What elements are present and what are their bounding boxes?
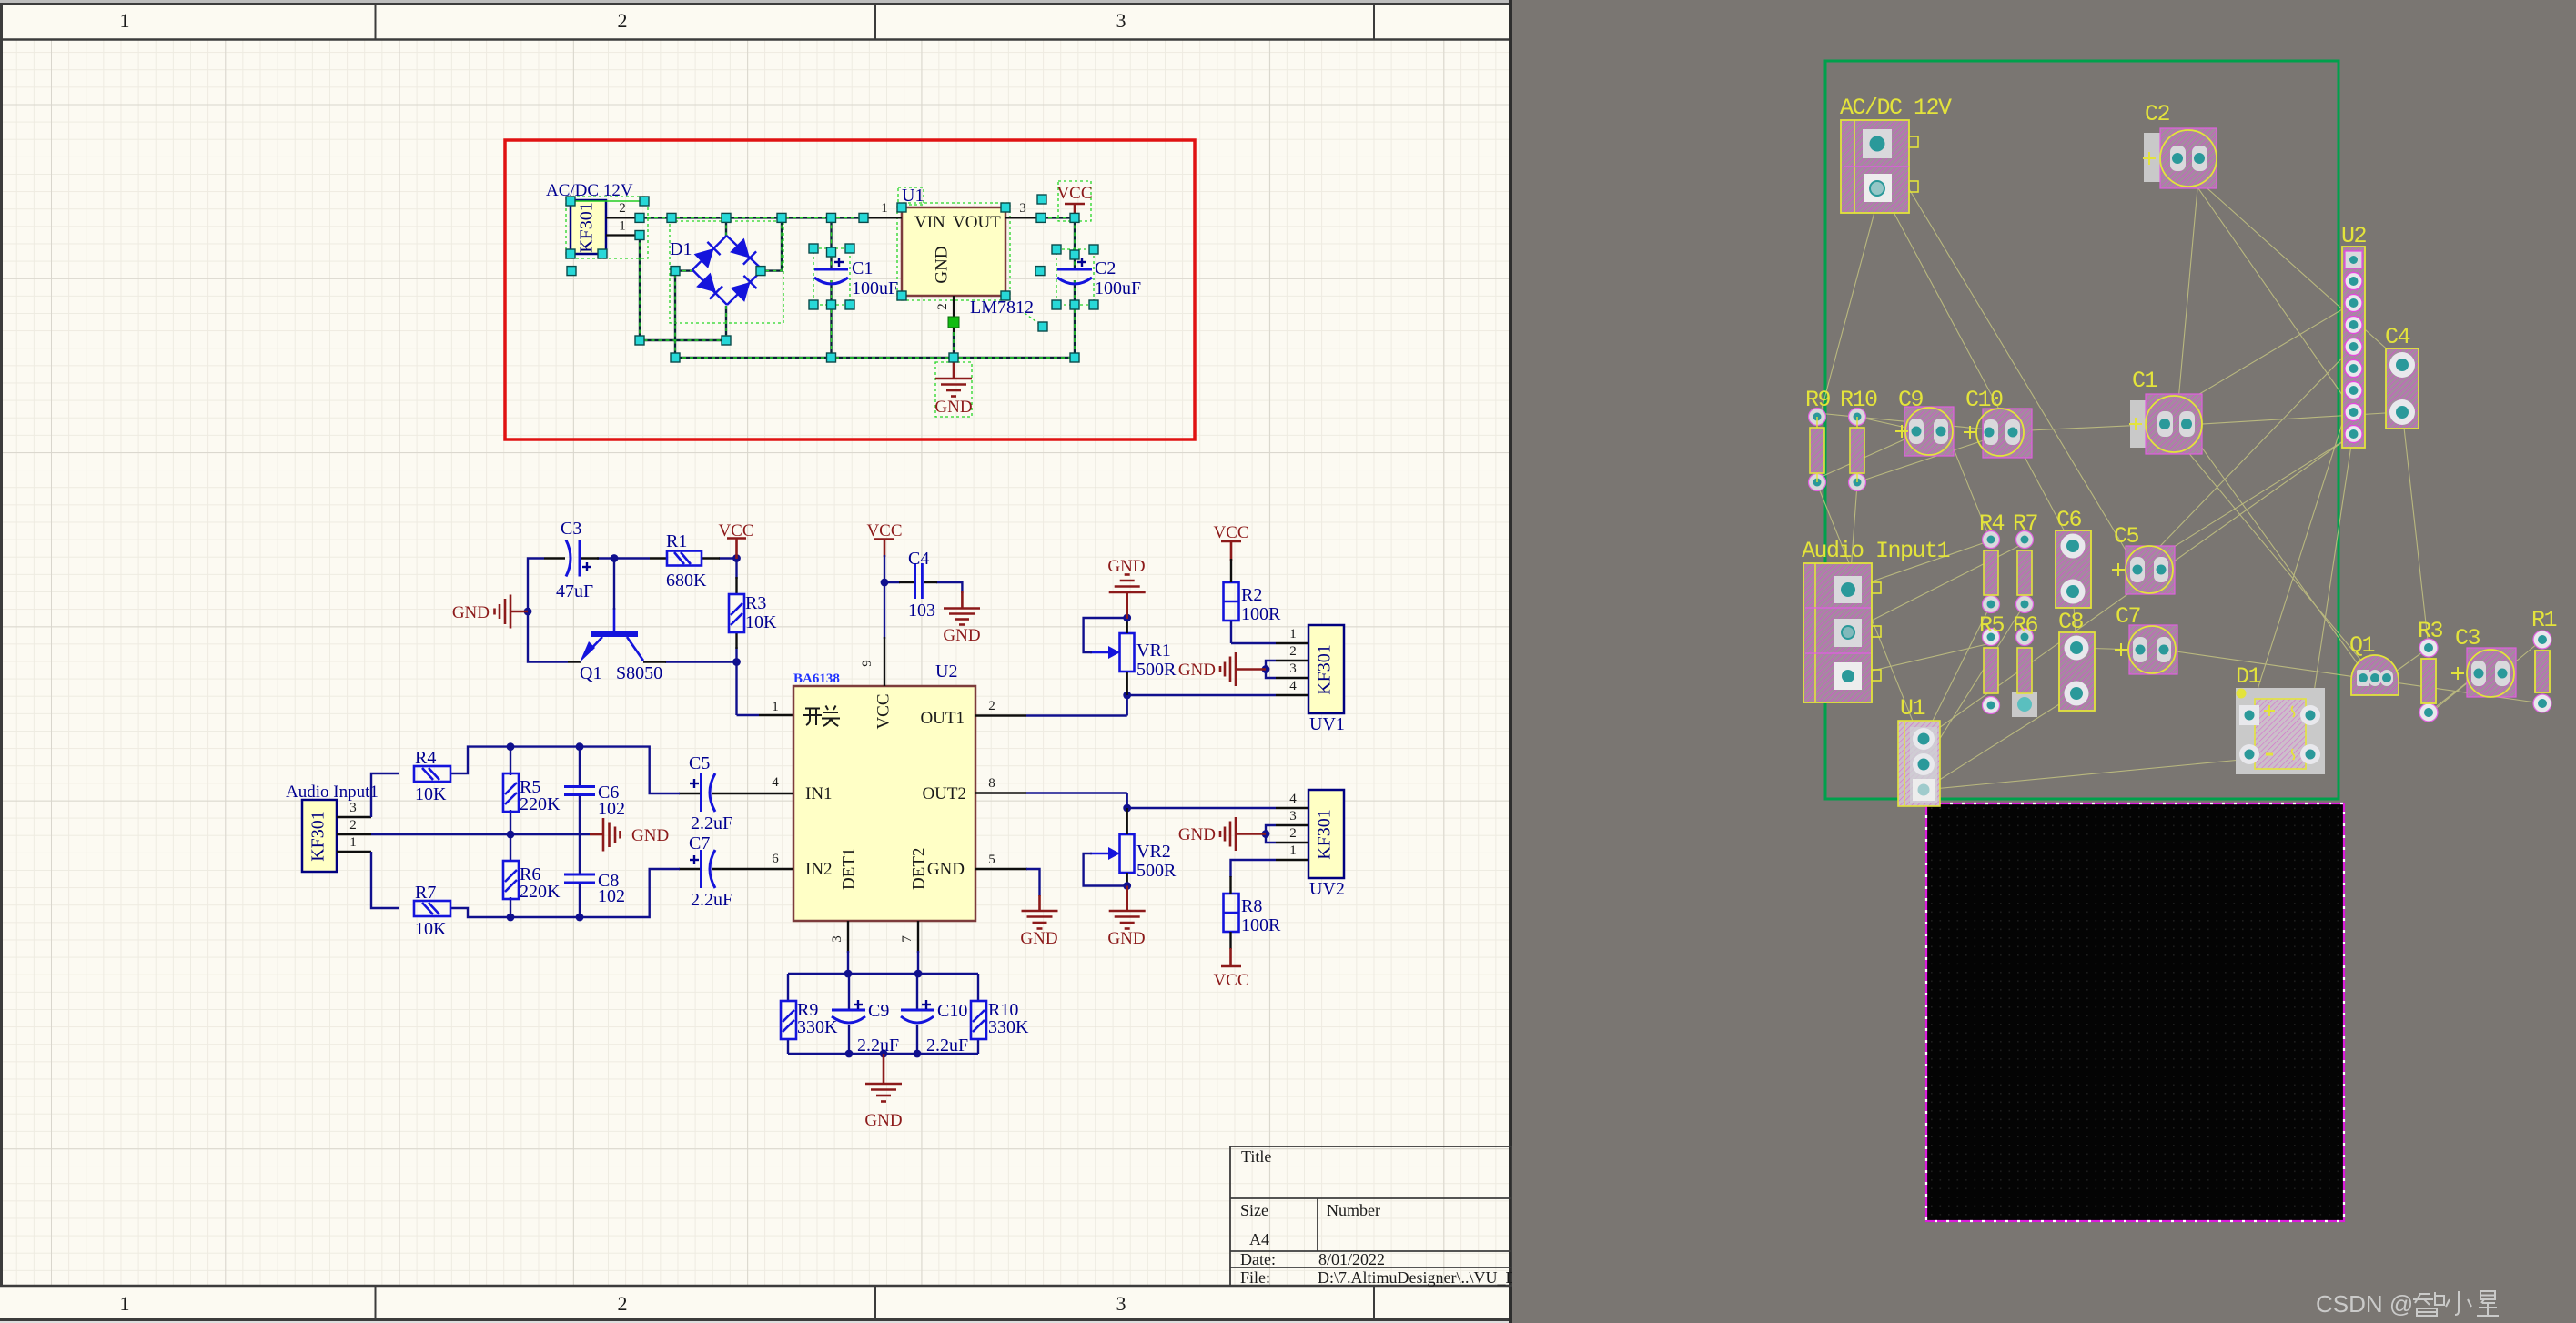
pin 3 of Audio Input1 <box>337 816 371 818</box>
svg-text:10K: 10K <box>415 784 447 804</box>
svg-text:GND: GND <box>1178 661 1216 680</box>
svg-text:47uF: 47uF <box>556 581 593 601</box>
svg-text:R8: R8 <box>1241 896 1262 916</box>
bridge rectifier D1 <box>692 236 763 305</box>
resistor footprint R7 <box>2013 510 2038 613</box>
svg-text:8: 8 <box>988 776 995 791</box>
svg-text:GND: GND <box>1178 825 1216 844</box>
svg-text:2.2uF: 2.2uF <box>926 1035 968 1055</box>
ground GND under C9/C10 <box>865 1054 902 1102</box>
BR diode: bottom->right <box>731 282 751 302</box>
svg-text:VR1: VR1 <box>1136 641 1171 661</box>
svg-text:2: 2 <box>618 9 628 32</box>
svg-text:U2: U2 <box>2341 223 2367 249</box>
junction node VCC/C4 <box>881 579 889 587</box>
wire UV1 pins 2-3 tie <box>1266 661 1276 678</box>
transistor footprint Q1 <box>2349 632 2399 695</box>
pin name 开关 <box>803 706 840 727</box>
resistor R2 100R <box>1224 582 1239 621</box>
svg-text:IN1: IN1 <box>805 784 833 803</box>
svg-text:C2: C2 <box>1095 258 1116 278</box>
svg-text:500R: 500R <box>1136 660 1177 680</box>
svg-text:220K: 220K <box>520 794 561 814</box>
capacitor footprint C1 <box>2129 368 2202 454</box>
pin stubs (black) around C3 R1 R3 Q1 <box>544 559 793 716</box>
capacitor C4 103 <box>915 563 923 599</box>
svg-text:3: 3 <box>1116 9 1126 32</box>
svg-text:VCC: VCC <box>1213 971 1248 990</box>
capacitor footprint C8 <box>2058 609 2095 711</box>
svg-text:BA6138: BA6138 <box>793 672 840 686</box>
svg-text:C8: C8 <box>2058 609 2084 635</box>
header footprint U2 <box>2341 223 2367 448</box>
wire VCC to C4 and U2 pin9 <box>884 555 962 639</box>
wire top rail AC <box>640 217 864 218</box>
resistor footprint R4 <box>1979 510 2005 613</box>
svg-text:C5: C5 <box>689 753 710 773</box>
svg-text:R10: R10 <box>1840 387 1877 413</box>
pin 1 of Audio Input1 <box>337 851 371 853</box>
pin 2 of U2 <box>975 714 1026 716</box>
svg-text:C7: C7 <box>2116 603 2141 630</box>
power port VCC (output) <box>1065 204 1085 218</box>
junction node C3/R1 <box>611 554 619 562</box>
resistor R10 330K <box>971 1001 986 1039</box>
capacitor footprint C5 <box>2112 523 2175 594</box>
wire OUT2 to VR2/UV2 pin4 <box>1026 793 1276 809</box>
svg-text:9: 9 <box>860 660 874 667</box>
pin 1 of U1 <box>864 217 902 218</box>
svg-text:6: 6 <box>772 852 779 866</box>
svg-text:CSDN @: CSDN @ <box>2316 1290 2413 1318</box>
svg-text:10K: 10K <box>415 919 447 939</box>
svg-text:2.2uF: 2.2uF <box>857 1035 899 1055</box>
svg-text:R3: R3 <box>745 593 766 613</box>
svg-text:GND: GND <box>932 246 951 283</box>
svg-text:2: 2 <box>618 1292 628 1315</box>
svg-text:C9: C9 <box>868 1001 889 1021</box>
svg-text:UV2: UV2 <box>1309 879 1345 899</box>
wire OUT1 to VR1/UV1 pin4 <box>1026 695 1276 716</box>
board outline <box>1825 61 2339 799</box>
selection dash boxes <box>566 181 1094 417</box>
svg-text:C9: C9 <box>1898 387 1924 413</box>
top band numbers <box>120 9 1126 32</box>
svg-text:C3: C3 <box>2455 625 2480 651</box>
capacitor footprint C4 <box>2385 324 2419 429</box>
capacitor C9 2.2uF <box>832 1010 865 1023</box>
svg-text:KF301: KF301 <box>577 202 597 253</box>
svg-text:R4: R4 <box>415 748 436 768</box>
power port VCC above R2 <box>1221 541 1241 561</box>
svg-text:Size: Size <box>1240 1201 1268 1219</box>
svg-text:VCC: VCC <box>874 693 893 729</box>
TR diode: top->right <box>730 238 750 258</box>
pin 6 of U2 <box>679 868 701 870</box>
svg-text:5: 5 <box>988 853 995 867</box>
svg-text:AC/DC 12V: AC/DC 12V <box>1840 95 1952 121</box>
svg-text:100uF: 100uF <box>1095 278 1141 298</box>
black plane region <box>1926 803 2344 1221</box>
capacitor footprint C9 <box>1895 387 1954 456</box>
svg-text:103: 103 <box>908 601 935 621</box>
potentiometer VR2 500R <box>1090 834 1135 873</box>
svg-text:10K: 10K <box>745 612 777 632</box>
svg-text:C4: C4 <box>2385 324 2410 350</box>
regulator U1 LM7812 <box>902 186 1034 318</box>
svg-text:C5: C5 <box>2114 523 2139 550</box>
power wires (selected) <box>640 217 1075 358</box>
capacitor C3 47uF <box>566 540 580 577</box>
resistor footprint R5 <box>1979 612 2005 714</box>
junction nodes DET network <box>844 970 853 978</box>
wire D1 top stub <box>725 217 727 237</box>
svg-text:D1: D1 <box>2236 663 2261 690</box>
connector Audio Input1 KF301 <box>286 783 379 872</box>
wire U1 pin2 down <box>953 332 955 358</box>
pin 3 of U1 <box>1005 217 1041 218</box>
svg-text:1: 1 <box>120 9 130 32</box>
connector footprint AC/DC 12V <box>1840 95 1952 213</box>
ground GND under U2 pin5 <box>1026 869 1040 896</box>
svg-text:Audio Input1: Audio Input1 <box>286 783 379 802</box>
svg-text:GND: GND <box>943 626 980 645</box>
svg-text:2: 2 <box>1289 644 1297 659</box>
power port VCC below R8 <box>1221 948 1241 966</box>
svg-text:VCC: VCC <box>866 521 902 540</box>
svg-text:1: 1 <box>120 1292 130 1315</box>
resistor R6 220K <box>503 861 519 899</box>
svg-text:D:\7.AltimuDesigner\..\VU_D: D:\7.AltimuDesigner\..\VU_D <box>1318 1268 1512 1287</box>
svg-text:3: 3 <box>349 801 357 815</box>
capacitor C10 2.2uF <box>901 1010 934 1023</box>
svg-text:7: 7 <box>900 935 914 943</box>
svg-text:100R: 100R <box>1241 915 1281 935</box>
svg-text:VIN: VIN <box>914 213 945 232</box>
svg-text:R2: R2 <box>1241 585 1262 605</box>
green dash overlay on selected wires <box>640 217 1075 358</box>
wire pin1 down <box>640 236 726 341</box>
svg-text:File:: File: <box>1240 1268 1270 1287</box>
svg-text:2.2uF: 2.2uF <box>691 813 732 833</box>
junction node Q1 collector/R3 <box>732 658 741 666</box>
wire C1 leads <box>830 217 832 268</box>
svg-text:R5: R5 <box>1979 612 2005 639</box>
svg-text:GND: GND <box>934 398 972 417</box>
bottom band numbers <box>120 1292 1126 1315</box>
pin 2 of Audio Input1 <box>337 833 371 835</box>
capacitor footprint C7 <box>2115 603 2177 674</box>
svg-text:R1: R1 <box>666 531 687 551</box>
input network wires <box>371 747 680 917</box>
svg-text:3: 3 <box>1116 1292 1126 1315</box>
svg-text:IN2: IN2 <box>805 860 833 879</box>
DET capacitor network wires <box>788 951 978 1054</box>
capacitor footprint C2 <box>2143 101 2217 188</box>
capacitor C8 102 <box>564 874 595 883</box>
svg-text:C7: C7 <box>689 833 710 853</box>
svg-text:R4: R4 <box>1979 510 2005 537</box>
svg-text:C3: C3 <box>561 519 581 539</box>
svg-text:2: 2 <box>349 818 357 833</box>
svg-text:AC/DC 12V: AC/DC 12V <box>546 181 633 200</box>
svg-text:Number: Number <box>1327 1201 1380 1219</box>
svg-text:C1: C1 <box>852 258 873 278</box>
wire D1 right stub <box>761 217 782 270</box>
junction nodes input network <box>507 742 515 751</box>
svg-text:C1: C1 <box>2132 368 2157 394</box>
svg-text:3: 3 <box>1289 809 1297 823</box>
resistor R4 10K <box>414 766 450 782</box>
svg-text:C2: C2 <box>2145 101 2170 127</box>
svg-text:4: 4 <box>772 775 779 790</box>
svg-text:Audio Input1: Audio Input1 <box>1802 538 1950 564</box>
potentiometer VR1 500R <box>1090 633 1135 672</box>
svg-text:GND: GND <box>1020 929 1057 948</box>
svg-text:GND: GND <box>864 1111 902 1130</box>
svg-text:R6: R6 <box>2013 612 2038 639</box>
TL diode: left->top <box>694 248 714 268</box>
wire short green stub above P1 <box>572 200 644 202</box>
sheet frame bottom band <box>0 1286 1512 1323</box>
pin names IN1 IN2 VCC OUT1 OUT2 GND DET1 DET2 <box>805 693 966 890</box>
capacitor C7 2.2uF <box>702 850 716 888</box>
svg-text:330K: 330K <box>797 1017 838 1037</box>
IC U2 BA6138 <box>793 661 975 921</box>
svg-text:C6: C6 <box>2056 507 2082 533</box>
junction node R1/R3/VCC <box>732 554 741 562</box>
resistor R8 100R <box>1224 894 1239 932</box>
svg-text:Date:: Date: <box>1240 1250 1276 1268</box>
svg-text:A4: A4 <box>1249 1230 1269 1248</box>
resistor R9 330K <box>781 1001 796 1039</box>
svg-text:DET2: DET2 <box>909 848 928 890</box>
svg-text:Q1: Q1 <box>2349 632 2375 659</box>
wire C2 bottom lead <box>1074 280 1076 358</box>
ground GND left of C3 <box>495 595 529 629</box>
svg-text:VCC: VCC <box>718 521 753 540</box>
pin 2 of U1 <box>953 296 955 332</box>
sheet right edge <box>1509 0 1512 1323</box>
svg-text:KF301: KF301 <box>1315 809 1335 860</box>
svg-text:KF301: KF301 <box>308 811 328 862</box>
svg-text:220K: 220K <box>520 882 561 902</box>
pins 4-1 of UV2 <box>1276 808 1308 860</box>
ground GND right of C4 <box>944 591 980 625</box>
power port VCC above R3 <box>727 539 746 560</box>
svg-text:OUT2: OUT2 <box>922 784 966 803</box>
resistor footprint R6 <box>2012 612 2038 717</box>
svg-text:OUT1: OUT1 <box>920 709 965 728</box>
MAIN-CIRCUIT <box>286 519 1345 1130</box>
resistor footprint R9 <box>1805 387 1831 491</box>
svg-text:R1: R1 <box>2531 607 2557 633</box>
wire R2 to UV1 pin1 <box>1231 621 1276 643</box>
connector footprint U1 <box>1898 695 1940 806</box>
svg-text:VOUT: VOUT <box>953 213 1001 232</box>
resistor footprint R10 <box>1840 387 1877 491</box>
ground GND at UV1 <box>1220 652 1266 686</box>
svg-text:500R: 500R <box>1136 861 1177 881</box>
svg-text:VR2: VR2 <box>1136 842 1171 862</box>
watermark CSDN <box>2316 1290 2499 1318</box>
svg-text:1: 1 <box>1289 843 1297 858</box>
ground GND at UV2 <box>1220 817 1266 851</box>
connector P1 KF301 AC/DC 12V <box>546 181 633 254</box>
svg-text:GND: GND <box>1107 557 1145 576</box>
svg-text:2: 2 <box>935 303 950 310</box>
svg-text:102: 102 <box>598 799 625 819</box>
小 <box>2446 1291 2471 1315</box>
junction node GND/C3 loop <box>524 608 532 616</box>
junction green square at U1 pin2 <box>948 317 959 328</box>
svg-text:C4: C4 <box>908 549 929 569</box>
red highlight box <box>505 140 1195 439</box>
svg-text:GND: GND <box>631 826 669 845</box>
svg-text:R7: R7 <box>2013 510 2038 537</box>
resistor R3 10K <box>729 594 744 632</box>
capacitor footprint C6 <box>2056 507 2091 608</box>
pin 7 of U2 (DET2) <box>917 921 919 953</box>
svg-text:UV1: UV1 <box>1309 714 1345 734</box>
capacitor footprint C10 <box>1964 387 2032 458</box>
connector UV1 KF301 <box>1308 625 1345 734</box>
svg-text:3: 3 <box>1019 201 1026 216</box>
ground GND below VR2 <box>1109 886 1146 929</box>
svg-text:680K: 680K <box>666 571 707 591</box>
svg-text:U2: U2 <box>935 661 957 682</box>
resistor footprint R3 <box>2418 618 2443 722</box>
BL diode: left->bottom <box>696 273 716 293</box>
resistor R7 10K <box>414 901 450 916</box>
svg-text:C10: C10 <box>1965 387 2003 413</box>
power port VCC above U2 <box>874 540 894 558</box>
svg-text:R9: R9 <box>1805 387 1831 413</box>
svg-text:2.2uF: 2.2uF <box>691 890 732 910</box>
svg-text:Title: Title <box>1241 1147 1271 1166</box>
svg-text:Q1: Q1 <box>580 663 601 683</box>
capacitor footprint C3 <box>2451 625 2516 697</box>
wire gnd bottom rail <box>675 357 1075 359</box>
pin 2 of P1 <box>606 217 640 218</box>
pins 1-4 of UV1 <box>1276 643 1308 695</box>
wire UV2 pin1 to R8 <box>1231 860 1277 877</box>
title block <box>1230 1146 1512 1286</box>
svg-text:U1: U1 <box>1900 695 1925 722</box>
svg-text:KF301: KF301 <box>1315 644 1335 695</box>
svg-text:GND: GND <box>1107 929 1145 948</box>
capacitor C6 102 <box>564 787 595 795</box>
svg-text:3: 3 <box>830 935 844 943</box>
wire U1 pin3 to VCC to C2 <box>1041 217 1075 218</box>
capacitor C5 2.2uF <box>702 773 716 812</box>
pin 9 of U2 <box>884 637 885 686</box>
svg-text:2: 2 <box>619 201 626 216</box>
selection handles (cyan) <box>566 195 1098 362</box>
svg-text:4: 4 <box>1289 792 1297 806</box>
svg-text:VCC: VCC <box>1056 184 1092 203</box>
pin 4 of U2 <box>679 793 701 794</box>
svg-text:330K: 330K <box>988 1017 1029 1037</box>
svg-text:C10: C10 <box>937 1001 967 1021</box>
svg-text:VCC: VCC <box>1213 523 1248 542</box>
svg-text:8/01/2022: 8/01/2022 <box>1318 1250 1385 1268</box>
svg-text:102: 102 <box>598 886 625 906</box>
svg-text:R3: R3 <box>2418 618 2443 644</box>
transistor Q1 S8050 <box>588 608 643 661</box>
svg-text:1: 1 <box>1289 627 1297 641</box>
capacitor C1 100uF <box>814 269 848 284</box>
connector UV2 KF301 <box>1308 790 1345 899</box>
pin 3 of U2 (DET1) <box>847 921 849 953</box>
pin 5 of U2 <box>975 868 1027 870</box>
wire UV2 pins 3-2 tie <box>1266 825 1276 843</box>
svg-text:D1: D1 <box>670 239 692 259</box>
sheet frame top band <box>0 0 1512 1323</box>
resistor footprint R1 <box>2531 607 2557 712</box>
power GND under U1 <box>935 358 972 397</box>
resistor R1 680K <box>667 551 702 566</box>
bridge footprint D1 <box>2236 663 2325 774</box>
svg-text:100uF: 100uF <box>852 278 898 298</box>
svg-text:GND: GND <box>452 603 490 622</box>
svg-text:2: 2 <box>1289 826 1297 841</box>
智 <box>2413 1292 2444 1316</box>
svg-text:1: 1 <box>349 835 357 850</box>
svg-text:100R: 100R <box>1241 604 1281 624</box>
wire C3 top row <box>528 559 759 716</box>
svg-text:4: 4 <box>1289 679 1297 693</box>
星 <box>2477 1291 2499 1316</box>
capacitor C2 100uF <box>1057 269 1092 284</box>
svg-text:2: 2 <box>988 699 995 713</box>
svg-text:1: 1 <box>772 700 779 714</box>
wire D1 left branch <box>675 271 693 358</box>
svg-text:S8050: S8050 <box>616 663 662 683</box>
ratsnest <box>1817 142 2542 790</box>
svg-text:GND: GND <box>927 860 965 879</box>
pin 1 of P1 <box>606 234 640 236</box>
ground GND above VR1 (inverted) <box>1109 575 1146 620</box>
svg-text:3: 3 <box>1289 661 1297 676</box>
connector footprint Audio Input1 <box>1802 538 1950 702</box>
wire D1 bottom stub <box>725 306 727 340</box>
svg-text:DET1: DET1 <box>839 848 858 890</box>
pin 8 of U2 <box>975 792 1026 793</box>
resistor R5 220K <box>503 773 519 812</box>
svg-text:1: 1 <box>619 219 626 234</box>
svg-text:1: 1 <box>881 201 888 216</box>
ground GND mid rail <box>590 818 621 852</box>
svg-text:R7: R7 <box>415 883 436 903</box>
